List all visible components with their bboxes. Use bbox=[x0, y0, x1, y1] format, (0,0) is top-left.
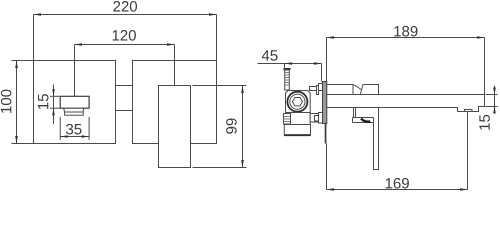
cartridge outer circle bbox=[287, 92, 307, 112]
dimension 120 line bbox=[75, 44, 175, 46]
handle collar side bbox=[327, 85, 353, 95]
dimension 15 spout label bbox=[479, 115, 489, 130]
dimension 189 line bbox=[327, 37, 485, 39]
wall plate lower edge bbox=[325, 124, 327, 144]
dimension 99 label bbox=[226, 118, 237, 133]
dimension 15 label bbox=[38, 94, 48, 109]
dimension 169 line bbox=[327, 189, 468, 191]
valve body lower section bbox=[291, 113, 311, 125]
dimension 15 (spout end) bbox=[494, 86, 496, 113]
dimension 15 (handle height) bbox=[53, 85, 55, 125]
lever elbow shading bbox=[361, 119, 370, 122]
lever stem under spout bbox=[353, 108, 355, 118]
left threaded stub bbox=[284, 114, 291, 125]
cartridge hex nut bbox=[292, 98, 302, 106]
dimension 35 label bbox=[66, 124, 81, 135]
dimension 120 label bbox=[113, 30, 136, 41]
wall plate side bbox=[323, 82, 327, 124]
dimension 169 label bbox=[386, 178, 409, 189]
right wall plate bbox=[133, 61, 217, 144]
lower connection pipe to wall bbox=[310, 114, 318, 123]
lever arm bbox=[353, 117, 374, 119]
left wall plate bbox=[34, 61, 116, 144]
dimension 45 line bbox=[258, 63, 322, 65]
upper wall bracket bbox=[319, 84, 323, 91]
spout front bbox=[159, 86, 191, 168]
cartridge inner circle bbox=[290, 94, 305, 109]
dimension 100 line bbox=[16, 61, 18, 144]
dimension 189 label bbox=[394, 26, 417, 37]
lever rod bbox=[374, 108, 379, 170]
dimension 99 line bbox=[242, 86, 244, 168]
dimension 220 line bbox=[34, 14, 217, 16]
aerator notch bbox=[465, 110, 473, 112]
handle escutcheon front bbox=[60, 96, 89, 108]
spout side bbox=[327, 95, 485, 112]
valve flange bbox=[284, 125, 310, 135]
valve cartridge housing bbox=[286, 91, 311, 113]
valve top threaded stub bbox=[284, 68, 291, 70]
handle fillet curve bbox=[353, 85, 361, 90]
handle knob front bbox=[64, 108, 84, 112]
connector bar between plates bbox=[116, 85, 133, 87]
upper connection pipe to wall bbox=[310, 87, 319, 91]
dimension 45 label bbox=[262, 50, 278, 60]
dimension 100 label bbox=[1, 90, 12, 113]
dimension 35 (handle width) bbox=[60, 136, 89, 138]
handle lever tilted grip bbox=[360, 85, 378, 95]
dimension 220 label bbox=[113, 1, 137, 12]
